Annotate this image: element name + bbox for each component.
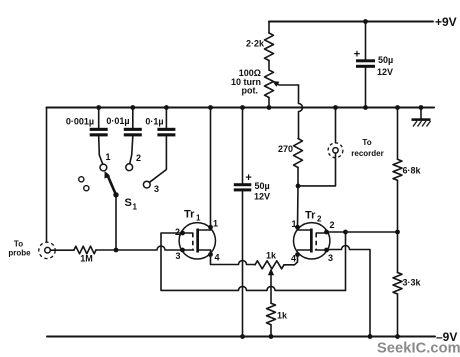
potentiometer 1k between sources: [255, 261, 284, 269]
label contact 1: [106, 152, 111, 162]
pin 1 of Tr2: [295, 225, 300, 230]
label 0&#183;01&#181; value: [106, 116, 129, 126]
wire ground bus rail: [47, 107, 435, 109]
svg-text:+: +: [245, 172, 251, 184]
wire pot wiper to 270 (crosses ground bus): [299, 85, 303, 139]
junction node 270/recorder: [296, 184, 301, 189]
label To recorder: [351, 138, 383, 158]
label contact 3: [154, 184, 159, 194]
svg-text:1k: 1k: [277, 311, 288, 321]
switch S1 wiper arm: [105, 171, 119, 198]
label 0&#183;1&#181; value: [145, 117, 163, 127]
svg-text:4: 4: [215, 253, 220, 263]
svg-text:6·8k: 6·8k: [403, 166, 422, 176]
wire Tr1 source pin 4 to 1k pot (hops cap line): [211, 250, 256, 265]
label 100 ohm 10 turn pot: [231, 68, 261, 96]
svg-text:1: 1: [106, 152, 111, 162]
label 1k tail value: [277, 311, 288, 321]
label 2.2k value: [246, 39, 265, 49]
label 50u 12V decoupling cap: [377, 55, 393, 77]
svg-text:Tr: Tr: [305, 210, 316, 222]
wiper arrow of 1k pot: [268, 268, 274, 303]
label 6.8k value: [403, 166, 422, 176]
label + polarity of mid cap: [245, 172, 251, 184]
svg-text:1: 1: [196, 214, 201, 223]
label pin2 Tr1: [175, 227, 180, 237]
label pin2 Tr2: [330, 220, 335, 230]
wire switch pole down to signal line: [114, 195, 119, 253]
capacitor 0&#183;01&#181; input: [124, 105, 142, 164]
wire +9V supply rail: [269, 21, 433, 23]
svg-text:0·001µ: 0·001µ: [66, 117, 94, 127]
svg-text:recorder: recorder: [351, 149, 383, 158]
svg-text:50µ: 50µ: [255, 181, 270, 191]
wiper arrow of 100 ohm pot: [272, 81, 298, 87]
switch S1 contact 1: [100, 164, 107, 171]
label 1M value: [80, 254, 93, 264]
label S1: [125, 197, 138, 212]
label To probe: [8, 240, 31, 258]
svg-text:12V: 12V: [254, 192, 270, 202]
wire cross-coupling vertical at x=345: [345, 232, 347, 290]
label Tr2: [305, 210, 322, 224]
svg-text:1: 1: [292, 219, 297, 229]
svg-text:3: 3: [328, 253, 333, 263]
svg-text:0·01µ: 0·01µ: [106, 116, 129, 126]
label Tr1: [184, 209, 201, 223]
switch S1 unused contact a: [79, 177, 84, 182]
label pin3 Tr1: [176, 251, 181, 261]
switch S1 contact 3: [143, 181, 150, 188]
wire Tr1 drain pin 1 to ground bus: [208, 105, 213, 230]
wire probe jack to 1M: [51, 249, 75, 251]
resistor 270: [294, 139, 303, 186]
svg-text:270: 270: [278, 144, 293, 154]
label contact 2: [136, 153, 141, 163]
svg-text:1k: 1k: [266, 251, 277, 261]
potentiometer 100 ohm 10-turn: [265, 70, 274, 110]
watermark SeekIC.com: [377, 341, 460, 357]
ground (chassis) symbol: [412, 105, 431, 126]
svg-text:2: 2: [175, 227, 180, 237]
svg-text:1: 1: [133, 203, 138, 212]
svg-text:3: 3: [154, 184, 159, 194]
label pin1 Tr2: [292, 219, 297, 229]
svg-text:S: S: [125, 197, 132, 209]
svg-text:Tr: Tr: [184, 209, 195, 221]
pin 2 of Tr2: [324, 230, 329, 235]
label -9V: [436, 330, 457, 344]
pin 3 of Tr2: [324, 248, 329, 253]
svg-text:To: To: [362, 138, 371, 147]
capacitor 50u 12V supply decoupling: [356, 19, 375, 110]
pin 3 of Tr1: [180, 248, 185, 253]
capacitor 50u 12V mid bypass: [234, 105, 252, 339]
svg-text:2: 2: [330, 220, 335, 230]
label pin3 Tr2: [328, 253, 333, 263]
label 3.3k value: [403, 278, 422, 288]
pin 2 of Tr1: [180, 231, 185, 236]
svg-text:1M: 1M: [80, 254, 93, 264]
svg-text:+: +: [354, 49, 360, 61]
wire -9V supply rail: [47, 336, 435, 338]
capacitor 0&#183;1&#181; input: [150, 105, 176, 182]
svg-text:SeekIC.com: SeekIC.com: [377, 341, 460, 357]
label pin4 Tr1: [215, 253, 220, 263]
svg-text:3·3k: 3·3k: [403, 278, 422, 288]
svg-text:4: 4: [291, 254, 296, 264]
resistor 2.2k: [265, 22, 274, 71]
svg-text:To: To: [14, 240, 23, 249]
resistor 1k tail: [267, 303, 276, 339]
label 1k pot value: [266, 251, 277, 261]
capacitor 0&#183;001&#181; input: [90, 105, 108, 164]
svg-text:2·2k: 2·2k: [246, 39, 265, 49]
jack to recorder: [298, 105, 343, 186]
resistor 1M: [74, 246, 96, 254]
pin 1 of Tr1: [208, 225, 213, 230]
svg-text:probe: probe: [8, 249, 31, 258]
transistor Tr2: [294, 223, 330, 259]
wire Tr2 source pin 3 to -9V rail (hops bias vertical): [327, 246, 373, 339]
label 50u 12V mid cap: [254, 181, 270, 202]
wire gate-2 bias line from divider to Tr2 pin 2: [327, 230, 400, 235]
resistor 6.8k: [393, 105, 402, 232]
transistor Tr1: [179, 223, 215, 259]
wire 270 to Tr2 drain pin 1: [297, 186, 300, 227]
switch S1 unused contact b: [84, 186, 89, 191]
svg-text:1: 1: [213, 219, 218, 229]
svg-text:+9V: +9V: [435, 15, 457, 29]
label pin1 Tr1: [213, 219, 218, 229]
wire 1k pot to Tr2 source pin 4: [284, 255, 298, 265]
svg-text:12V: 12V: [377, 67, 393, 77]
label 270 value: [278, 144, 293, 154]
jack to probe: [39, 242, 55, 258]
svg-text:50µ: 50µ: [378, 55, 393, 65]
svg-text:pot.: pot.: [242, 86, 259, 96]
label 0&#183;001&#181; value: [66, 117, 94, 127]
label pin4 Tr2: [291, 254, 296, 264]
svg-text:3: 3: [176, 251, 181, 261]
wire ground bus to probe jack shield: [46, 108, 48, 242]
resistor 3.3k: [393, 232, 402, 339]
switch S1 contact 2: [126, 164, 133, 171]
label +9V: [435, 15, 457, 29]
svg-text:2: 2: [136, 153, 141, 163]
svg-text:0·1µ: 0·1µ: [145, 117, 163, 127]
pin 4 of Tr2: [295, 252, 300, 257]
wire cross-coupling line to Tr1 gate pin 2: [161, 233, 346, 290]
label + polarity of decoupling cap: [354, 49, 360, 61]
svg-text:2: 2: [317, 215, 322, 224]
pin 4 of Tr1: [208, 252, 213, 257]
wire 1M to Tr1 gate pin 3 (hops cross-coupling line): [96, 246, 183, 250]
